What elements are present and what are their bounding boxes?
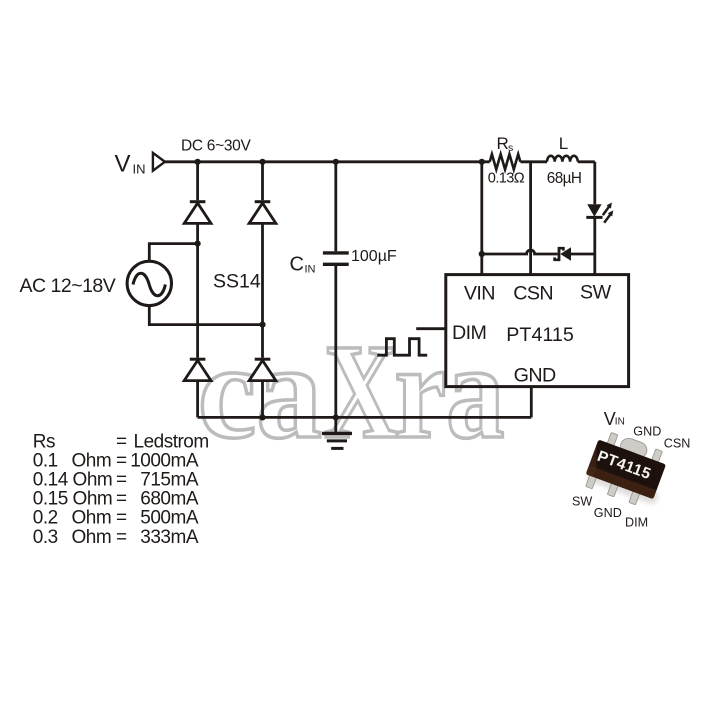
svg-text:=: = — [116, 470, 127, 491]
svg-text:Rs: Rs — [33, 432, 55, 453]
label VIN input — [115, 151, 146, 178]
wire: CSN column — [529, 162, 532, 275]
schottky diode D6 (freewheel) — [555, 247, 571, 261]
capacitor CIN — [323, 253, 349, 264]
IC U1 PT4115 box — [446, 275, 629, 387]
svg-text:PT4115: PT4115 — [506, 324, 574, 346]
label CIN — [290, 253, 316, 275]
svg-text:IN: IN — [615, 417, 625, 428]
svg-text:SW: SW — [572, 495, 592, 509]
svg-text:ca: ca — [198, 317, 322, 467]
svg-text:R: R — [497, 134, 509, 153]
wire: top rail from L to SW corner — [578, 160, 595, 163]
svg-text:s: s — [508, 142, 513, 154]
diode D1 (bridge top-left) — [184, 202, 211, 224]
svg-text:CSN: CSN — [664, 436, 691, 450]
resistor Rs — [490, 154, 521, 169]
table Rs values — [33, 432, 209, 548]
wire: VIN column — [480, 162, 483, 275]
svg-text:0.14 Ohm: 0.14 Ohm — [33, 470, 112, 491]
svg-text:GND: GND — [633, 425, 661, 439]
svg-text:333mA: 333mA — [140, 527, 199, 548]
svg-text:715mA: 715mA — [140, 470, 199, 491]
wire: CIN column upper — [334, 162, 337, 252]
ground — [322, 417, 352, 448]
svg-text:DIM: DIM — [625, 516, 648, 530]
svg-text:68µH: 68µH — [547, 170, 581, 187]
wire: right bridge column (x=262.5) — [261, 162, 264, 418]
wire: mid rail with hop over CSN — [482, 250, 595, 254]
diode D3 (bridge bottom-left) — [184, 359, 211, 380]
svg-text:SS14: SS14 — [213, 270, 261, 292]
svg-text:0.2 Ohm: 0.2 Ohm — [33, 508, 111, 529]
svg-text:=: = — [116, 527, 127, 548]
svg-text:AC 12~18V: AC 12~18V — [20, 275, 116, 297]
svg-text:1000mA: 1000mA — [130, 451, 199, 472]
svg-text:100µF: 100µF — [351, 248, 397, 265]
package label VIN — [604, 409, 625, 429]
svg-text:=: = — [116, 432, 127, 453]
svg-text:500mA: 500mA — [140, 508, 199, 529]
watermark caXra — [198, 317, 505, 467]
svg-text:0.13Ω: 0.13Ω — [488, 171, 525, 187]
wire: ground bus — [198, 416, 532, 419]
junction node dots — [195, 159, 485, 421]
wire: AC source bottom lead — [149, 306, 262, 325]
label Rs — [497, 134, 514, 154]
wire: left bridge column (x=197.6) — [196, 162, 199, 418]
diode D4 (bridge bottom-right) — [249, 359, 276, 380]
svg-text:CSN: CSN — [513, 283, 553, 305]
inductor L — [547, 156, 578, 162]
input arrow VIN — [153, 153, 165, 171]
wire: CIN column lower — [334, 266, 337, 418]
svg-text:0.15 Ohm: 0.15 Ohm — [33, 489, 112, 510]
wire: DIM lead — [416, 327, 446, 330]
svg-text:GND: GND — [514, 364, 556, 386]
svg-text:VIN: VIN — [464, 283, 495, 305]
wire: AC source top lead — [149, 244, 197, 262]
svg-text:DC 6~30V: DC 6~30V — [181, 138, 252, 155]
svg-text:=: = — [116, 451, 127, 472]
AC source V1 — [127, 261, 171, 305]
svg-text:IN: IN — [305, 264, 316, 276]
package photo PT4115 SOT89 — [582, 428, 674, 511]
svg-text:L: L — [559, 134, 568, 153]
svg-text:SW: SW — [580, 281, 612, 303]
PWM square wave on DIM — [377, 339, 427, 356]
svg-text:Ledstrom: Ledstrom — [134, 432, 209, 453]
LED D5 — [586, 203, 613, 223]
svg-text:0.1 Ohm: 0.1 Ohm — [33, 451, 111, 472]
svg-text:GND: GND — [594, 506, 622, 520]
svg-text:IN: IN — [133, 162, 146, 177]
wire: GND pin lead — [530, 387, 533, 418]
wire: SW column — [593, 162, 596, 275]
svg-text:=: = — [116, 508, 127, 529]
svg-text:DIM: DIM — [452, 322, 486, 344]
svg-text:V: V — [115, 151, 131, 178]
diode D2 (bridge top-right) — [249, 202, 276, 224]
svg-text:C: C — [290, 253, 304, 275]
svg-text:680mA: 680mA — [140, 489, 199, 510]
wire: top rail between Rs and L — [520, 160, 547, 163]
wire: top rail from input arrow to Rs — [165, 160, 490, 163]
svg-text:=: = — [116, 489, 127, 510]
svg-text:0.3 Ohm: 0.3 Ohm — [33, 527, 111, 548]
